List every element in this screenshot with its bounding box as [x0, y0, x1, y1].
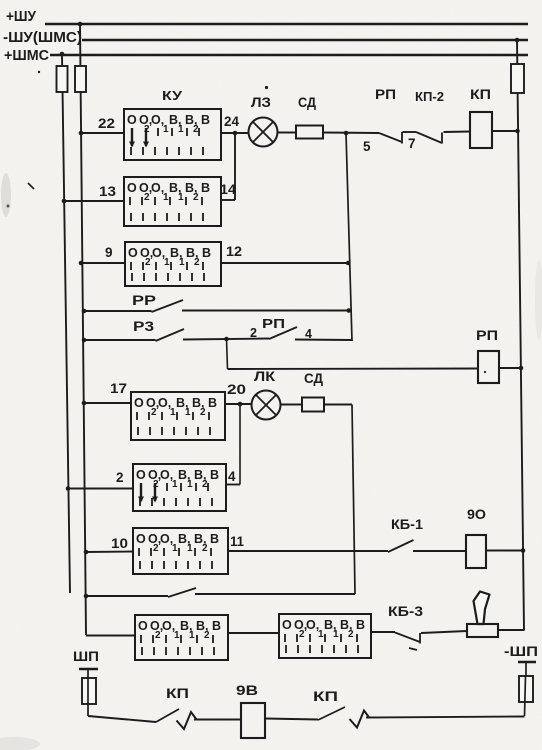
svg-text:1: 1: [318, 629, 324, 640]
wire to relay КП: [444, 131, 471, 134]
scan mark: [409, 648, 417, 650]
svg-text:+ШУ: +ШУ: [6, 9, 37, 25]
fuse F2: [75, 66, 86, 92]
svg-text:О: О: [136, 532, 146, 546]
svg-text:О: О: [134, 396, 144, 410]
contact КП blade (bottom left): [156, 709, 179, 722]
junction wire12/vert349: [346, 261, 351, 266]
svg-text:17: 17: [110, 381, 127, 396]
svg-text:В: В: [201, 181, 210, 195]
wire КБ-3 right: [421, 631, 467, 633]
svg-text:О: О: [128, 246, 138, 260]
fuse F1: [57, 66, 68, 92]
svg-text:2: 2: [144, 192, 150, 203]
scan smudge bottom left: [0, 737, 40, 750]
bus wire -ШУ(ШМС) (line 2): [82, 39, 528, 42]
svg-text:1: 1: [187, 479, 193, 490]
svg-text:2: 2: [299, 629, 305, 640]
left vertical bus 1 (from +ШМС): [62, 55, 70, 593]
contact КП arrow symbol (right): [350, 711, 370, 728]
svg-text:В: В: [202, 246, 211, 260]
contact КБ-3 blade: [395, 633, 420, 643]
scan smudge right mid: [535, 260, 542, 340]
junction line1/left bus 2: [78, 22, 83, 27]
contact РП-5 bar: [401, 132, 403, 144]
svg-text:2: 2: [193, 192, 199, 203]
svg-text:1: 1: [172, 543, 178, 554]
svg-text:О: О: [282, 618, 292, 632]
bus wire +ШМС (line 3): [50, 54, 528, 57]
scan speck in РП coil: [484, 371, 486, 373]
svg-text:О: О: [127, 113, 137, 127]
svg-text:КП: КП: [470, 87, 491, 102]
junction РР/vert349: [347, 308, 352, 313]
svg-text:24: 24: [224, 114, 239, 129]
vertical from node20 down: [239, 404, 241, 485]
svg-text:2: 2: [151, 407, 157, 418]
svg-text:О: О: [136, 468, 146, 482]
svg-text:1: 1: [178, 124, 184, 135]
wire between contacts: [403, 131, 417, 133]
contact box bottom-left: [135, 615, 228, 660]
wire relay 9О to bus: [486, 550, 524, 552]
junction КП/right bus: [515, 129, 520, 134]
svg-text:В: В: [212, 619, 221, 633]
junction РР/bus2: [82, 309, 87, 314]
scan mark: [28, 183, 34, 189]
junction wire17/bus2: [82, 401, 87, 406]
lamp ЛК: [252, 391, 281, 420]
bottom wire left: [88, 716, 156, 722]
wire fuse ШП down: [87, 678, 89, 716]
svg-text:9: 9: [105, 245, 113, 260]
svg-text:КУ: КУ: [162, 88, 183, 103]
svg-text:-ШП: -ШП: [504, 643, 538, 659]
vertical x349 (from node x346 down): [346, 133, 352, 341]
svg-text:КБ-1: КБ-1: [391, 517, 424, 532]
svg-text:2: 2: [153, 543, 159, 554]
junction wire9/bus2: [79, 261, 84, 266]
wire 24: [221, 132, 249, 134]
junction wire22/bus2: [79, 131, 84, 136]
svg-text:22: 22: [98, 116, 115, 131]
svg-text:КП: КП: [166, 686, 189, 701]
svg-text:СД: СД: [304, 371, 323, 386]
junction node at x346: [344, 131, 349, 136]
svg-text:1: 1: [170, 407, 176, 418]
svg-text:РП: РП: [262, 316, 285, 331]
vertical from node2 down: [227, 339, 228, 369]
wire y595 right: [195, 593, 355, 595]
svg-text:1: 1: [187, 543, 193, 554]
terminal -ШП bar: [518, 661, 536, 664]
wire 9В right: [265, 719, 318, 720]
contact Р3 blade: [156, 329, 185, 341]
svg-text:1: 1: [174, 630, 180, 641]
contact КБ-3 bar: [419, 633, 421, 644]
svg-text:КП-2: КП-2: [415, 89, 444, 104]
svg-text:КП: КП: [313, 689, 338, 704]
wire 20: [225, 403, 252, 405]
wire y595 left: [86, 595, 168, 597]
wire switch to bus: [498, 629, 525, 631]
wire lamp ЛК to СД: [281, 404, 303, 406]
svg-text:1: 1: [178, 192, 184, 203]
svg-text:ЛК: ЛК: [254, 369, 276, 384]
left vertical bus 2 (from +ШУ): [80, 24, 86, 635]
contact КБ-1 blade: [388, 540, 414, 552]
wire РР left: [84, 310, 152, 312]
svg-text:5: 5: [363, 139, 371, 154]
svg-text:В: В: [201, 113, 210, 127]
svg-text:9О: 9О: [467, 507, 486, 522]
contact box КУ: [124, 109, 221, 160]
contact КП-2 blade: [416, 132, 442, 143]
svg-text:7: 7: [408, 136, 416, 151]
scan mark: [7, 205, 10, 208]
knife switch base: [467, 624, 498, 637]
contact box 9-12: [125, 242, 221, 286]
svg-text:КБ-3: КБ-3: [388, 604, 424, 619]
wire to bottom box: [86, 635, 135, 637]
svg-text:О: О: [127, 181, 137, 195]
svg-text:20: 20: [227, 382, 246, 397]
contact РР blade: [152, 300, 184, 312]
wire 14 vertical: [234, 133, 236, 200]
wire lamp-resistor: [278, 132, 297, 134]
scan mark: [38, 71, 40, 73]
wire КБ-3 left: [371, 631, 395, 633]
svg-text:СД: СД: [298, 95, 316, 110]
svg-text:1: 1: [189, 630, 195, 641]
svg-text:11: 11: [230, 534, 244, 549]
right vertical bus: [517, 40, 524, 630]
svg-text:Р3: Р3: [133, 319, 155, 334]
junction line3/left bus 1: [60, 52, 65, 57]
contact КП arrow symbol (left): [177, 712, 197, 729]
resistor СД (mid): [302, 398, 324, 412]
wire between bottom boxes: [228, 632, 279, 634]
svg-text:1: 1: [164, 257, 170, 268]
contact box bottom-right: [279, 614, 371, 658]
svg-text:9В: 9В: [236, 683, 258, 698]
fuse F3: [511, 64, 524, 93]
wire 14: [221, 199, 235, 201]
node 20 junction: [238, 402, 243, 407]
svg-text:В: В: [208, 396, 217, 410]
junction wire10/bus2: [84, 550, 89, 555]
wire Р3 right: [295, 339, 352, 342]
wire relay КП to bus: [492, 130, 518, 132]
svg-text:В: В: [210, 468, 219, 482]
svg-text:ШП: ШП: [73, 648, 99, 664]
svg-text:В: В: [356, 618, 365, 632]
contact box 17-20: [131, 392, 225, 440]
knife switch lever: [474, 592, 490, 625]
svg-text:2: 2: [200, 407, 206, 418]
wire to relay РП: [228, 368, 479, 371]
wire 13: [64, 200, 124, 202]
wire КБ-1 to relay 9О: [413, 550, 466, 552]
svg-text:14: 14: [220, 182, 237, 197]
junction line2/right bus: [515, 38, 520, 43]
svg-text:1: 1: [163, 124, 169, 135]
svg-text:1: 1: [179, 257, 185, 268]
svg-text:12: 12: [226, 244, 242, 259]
relay КП coil: [470, 112, 492, 148]
svg-text:1: 1: [172, 479, 178, 490]
node 24 junction: [233, 131, 238, 136]
junction wire13/bus1: [62, 199, 67, 204]
junction РП/right bus: [519, 366, 524, 371]
terminal ШП bar: [79, 668, 98, 671]
fuse -ШП: [519, 676, 533, 702]
svg-text:10: 10: [111, 536, 128, 551]
scan mark: [265, 86, 268, 89]
svg-text:2: 2: [348, 629, 354, 640]
contact КП-2 bar: [441, 133, 443, 144]
svg-text:РП: РП: [476, 328, 498, 343]
wire РР right: [182, 310, 349, 312]
contact box 10-11: [133, 528, 228, 574]
svg-text:2: 2: [250, 326, 257, 340]
wire 11: [228, 550, 388, 552]
svg-text:4: 4: [228, 469, 236, 484]
svg-text:+ШМС: +ШМС: [4, 48, 50, 64]
svg-text:13: 13: [99, 184, 117, 199]
scan smudge left edge: [1, 173, 11, 217]
wire Р3 left: [84, 339, 156, 341]
svg-text:2: 2: [155, 630, 161, 641]
svg-text:В: В: [210, 532, 219, 546]
contact РП blade (2-4): [269, 327, 297, 339]
wire 10: [86, 551, 133, 554]
svg-text:2: 2: [145, 257, 151, 268]
fuse ШП: [82, 678, 96, 704]
svg-text:2: 2: [204, 630, 210, 641]
relay 9О coil: [466, 535, 486, 568]
svg-text:2: 2: [202, 543, 208, 554]
junction 9О/right bus: [521, 548, 526, 553]
relay РП coil: [478, 351, 499, 383]
bus wire +ШУ (line 1): [45, 23, 528, 26]
bottom wire right: [366, 717, 525, 718]
junction wire2/bus1: [66, 486, 71, 491]
svg-text:2: 2: [194, 257, 200, 268]
wire 12: [221, 262, 349, 264]
contact КП blade (bottom right): [318, 707, 345, 720]
junction node 2 on Р3 wire: [224, 337, 229, 342]
wire resistor-contacts: [323, 132, 379, 135]
svg-text:1: 1: [185, 407, 191, 418]
svg-text:РР: РР: [132, 293, 156, 308]
contact box 2-4: [133, 464, 226, 511]
terminal -ШП stub: [525, 662, 527, 676]
junction y595/bus2: [84, 594, 89, 599]
svg-text:1: 1: [163, 192, 169, 203]
contact box 13-14: [124, 177, 221, 226]
wire 22: [81, 132, 124, 134]
vertical x352 down: [352, 405, 355, 595]
wire 2 (left): [68, 488, 133, 490]
svg-text:2: 2: [116, 470, 124, 485]
wire fuse -ШП down: [525, 676, 526, 716]
contact blade y595: [168, 588, 196, 597]
wire relay РП to bus: [499, 367, 522, 369]
svg-text:ЛЗ: ЛЗ: [251, 95, 271, 110]
contact РП-5 blade: [379, 133, 402, 142]
resistor СД (top): [296, 126, 323, 139]
svg-text:-ШУ(ШМС): -ШУ(ШМС): [3, 30, 82, 46]
wire to relay 9В: [194, 719, 241, 721]
wire 9: [81, 262, 125, 264]
svg-text:РП: РП: [375, 87, 396, 102]
wire 17: [84, 402, 131, 404]
junction Р3/bus2: [82, 338, 87, 343]
svg-text:О: О: [138, 619, 148, 633]
terminal ШП stub: [87, 669, 89, 678]
wire 4 (right): [226, 484, 240, 486]
lamp ЛЗ: [249, 118, 278, 147]
relay 9В coil: [241, 703, 265, 738]
wire СД right: [324, 404, 352, 406]
wire Р3 mid: [183, 339, 269, 340]
svg-text:1: 1: [333, 629, 339, 640]
